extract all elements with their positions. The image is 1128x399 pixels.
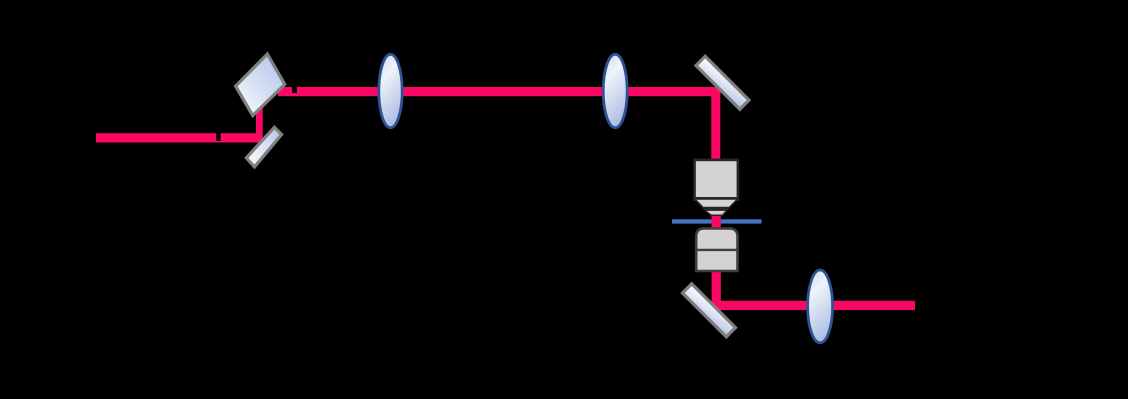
wire: vertical beam from pickoff mirror up to scan unit (256, 106, 263, 143)
wire: vertical beam through sample and condenser to fold mirror (712, 215, 721, 310)
scanner/AOM (rotated square) (236, 54, 285, 116)
objective (microscope objective pointing down) (693, 159, 739, 216)
node: notch on input beam (216, 132, 221, 141)
mirror M1 (top right periscope mirror) (696, 56, 749, 109)
wire: main horizontal beam from scan unit to periscope mirror (278, 87, 720, 96)
wire: input laser beam (horizontal, lower left) (96, 133, 263, 142)
wire: vertical beam down into objective (711, 92, 720, 162)
condenser (below sample) (695, 229, 739, 272)
wire: detection beam (horizontal, lower right) (712, 301, 915, 310)
node: notch on main beam (292, 86, 297, 93)
lens L1 (379, 54, 402, 127)
sample plane (blue coverslip line) (672, 219, 762, 223)
lens L3 (detection lens) (808, 270, 833, 343)
lens L2 (603, 54, 627, 127)
pickoff mirror (small, lower left) (246, 127, 281, 167)
mirror M2 (bottom fold mirror) (682, 284, 735, 337)
